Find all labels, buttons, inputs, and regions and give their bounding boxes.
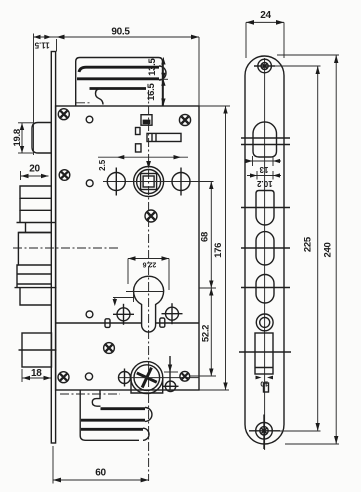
svg-text:13.5: 13.5 — [147, 58, 158, 76]
svg-text:52.2: 52.2 — [201, 325, 212, 342]
spindle follower inner circle — [137, 170, 161, 194]
spring leaf right cap — [159, 66, 166, 80]
cylinder fixing hole right — [162, 303, 183, 324]
small crosshair circle below right of hub — [163, 381, 179, 391]
svg-text:10.2: 10.2 — [256, 179, 272, 188]
dimension 60 arrows — [53, 478, 149, 483]
bottom spring bar 1 — [101, 407, 146, 410]
deadbolt slat 4 indented — [18, 223, 51, 233]
spring leaf bar 1 — [79, 67, 159, 72]
small leader dimension left of cylinder — [113, 293, 134, 306]
dimension 240 arrows — [334, 55, 338, 444]
cutout stadium mid — [256, 232, 274, 265]
dimension 13 arrows — [246, 159, 281, 163]
bottom screw hole — [249, 415, 280, 450]
hub inner circle — [134, 365, 160, 391]
screw top right — [179, 114, 190, 125]
faceplate vertical centerline — [264, 58, 266, 450]
dimension 60 left extension — [52, 446, 54, 484]
dimension 11.5 arrows — [34, 35, 52, 39]
alignment line b — [241, 247, 290, 249]
svg-text:24: 24 — [260, 10, 271, 21]
cutout stadium lower — [256, 275, 274, 304]
cylinder screw hole on plate — [256, 314, 273, 331]
centerline down arrow above spindle — [146, 161, 151, 169]
dimension 22.6 extensions — [127, 259, 129, 285]
case internal line at cylinder level left — [56, 322, 142, 324]
side hole right — [172, 168, 190, 196]
dimension 90.5 left arrow — [57, 35, 65, 40]
deadbolt slat 3 — [17, 210, 52, 222]
dimension 52.2 line — [210, 182, 212, 377]
dimension 18 line — [23, 377, 52, 379]
dimension 16.5 line — [162, 79, 164, 105]
hub left small circle — [119, 369, 131, 387]
deadbolt slat 6 — [17, 284, 52, 288]
svg-text:16.5: 16.5 — [146, 83, 157, 101]
svg-text:240: 240 — [322, 243, 333, 258]
handle screw below spindle — [145, 210, 157, 222]
faceplate outline — [245, 56, 284, 444]
lower cutout inner line — [255, 367, 273, 369]
vertical centerline — [148, 90, 150, 481]
latch cutout — [253, 122, 277, 157]
dimension 2.5 line — [98, 156, 188, 158]
small rect part a — [136, 128, 141, 135]
screw left mid — [59, 170, 70, 181]
dimension 24 line — [246, 21, 284, 23]
small hole circle top — [86, 116, 93, 123]
screw right of hub — [180, 371, 190, 381]
deadbolt cutout upper — [256, 191, 274, 226]
small rounded rect left of cylinder — [105, 319, 110, 328]
cylinder horizontal centerline — [126, 291, 164, 293]
deadbolt slat 1 — [20, 186, 52, 198]
dimension 60 line — [53, 479, 149, 481]
small rect part b — [136, 144, 142, 152]
dimension 240 line — [335, 55, 337, 444]
bottom spring bar 3 — [81, 428, 143, 431]
dimension 22.6 line — [128, 258, 169, 260]
svg-text:225: 225 — [303, 236, 314, 252]
deadbolt slat 2 — [20, 198, 52, 210]
dimension 90.5 right arrow — [191, 35, 199, 40]
spindle square hole outer — [141, 174, 157, 190]
dimension 19.8 extensions — [18, 122, 33, 124]
bottom spring right cap 1 — [145, 408, 152, 422]
auxiliary bolt box — [22, 333, 52, 367]
spindle follower outer circle — [134, 167, 164, 197]
lower rectangular cutout — [255, 333, 273, 374]
svg-text:90.5: 90.5 — [111, 27, 130, 38]
bottom spring left edge — [80, 390, 139, 440]
deadbolt slat 3 line to faceplate — [52, 222, 57, 224]
lock case outline — [56, 106, 199, 390]
svg-text:18: 18 — [31, 368, 42, 379]
hub horizontal centerline — [118, 377, 199, 379]
small rounded rect right of cylinder — [160, 318, 165, 327]
spindle horizontal centerline — [103, 181, 214, 183]
case top edge extension line — [199, 105, 230, 107]
screw top-left — [58, 109, 69, 120]
small hole circle mid — [86, 180, 93, 187]
hub outer circle — [131, 362, 163, 394]
case bottom centerline dashes — [60, 393, 120, 395]
dimension 90.5 line — [34, 36, 200, 38]
small hole circle hub row — [85, 373, 92, 380]
alignment line d — [239, 351, 291, 353]
spring curl dash mark — [76, 102, 91, 104]
case internal line at cylinder level right — [156, 322, 199, 324]
dimension 13.5 line — [162, 58, 164, 80]
alignment line c — [241, 287, 290, 289]
dimension 19.8 line — [21, 123, 23, 153]
dimension 225 arrows — [316, 66, 320, 431]
dimension 10.2 arrows — [250, 173, 280, 177]
deadbolt main block — [18, 233, 51, 266]
bottom spring bar 2 — [81, 419, 145, 422]
spring lower curl — [96, 89, 104, 105]
svg-text:19.8: 19.8 — [12, 129, 23, 146]
svg-text:13: 13 — [259, 165, 268, 174]
vertical line right of hub — [169, 356, 171, 390]
dimension 13 extensions — [252, 156, 254, 166]
dimension 20 extension — [20, 171, 22, 180]
dimension 240 extensions — [277, 54, 339, 56]
svg-text:11.5: 11.5 — [34, 40, 50, 49]
arrow on vertical line — [168, 365, 172, 373]
spring box top — [76, 58, 163, 106]
dimension 18 arrows — [23, 376, 52, 380]
svg-text:60: 60 — [95, 468, 106, 479]
small hole circle lower — [86, 311, 93, 318]
spring leaf bar 2 — [77, 77, 159, 80]
spring leaf bar 3 — [90, 87, 147, 90]
bottom screw left column — [58, 372, 69, 383]
dimension 225 line — [317, 66, 319, 431]
dimension 24 extensions — [245, 22, 247, 58]
dimension 19.8 arrows — [20, 123, 24, 153]
dimension 20 arrows — [21, 174, 49, 178]
bottom spring right cap 2 — [143, 428, 149, 440]
deadbolt slat 5 — [17, 265, 52, 284]
dimension 68/176 arrows — [223, 106, 227, 390]
hub cross dark — [132, 363, 161, 392]
deadbolt bottom line — [15, 287, 57, 289]
dimension 225 extensions — [272, 65, 321, 67]
side hole left — [107, 168, 125, 196]
screw mid left of hub — [104, 343, 115, 354]
auxiliary bolt wide line — [19, 349, 57, 351]
dimension 18 extension — [21, 369, 23, 382]
svg-text:2.5: 2.5 — [98, 159, 107, 171]
small square part above spindle — [141, 115, 152, 126]
svg-text:68: 68 — [199, 232, 210, 242]
slider bar part — [147, 133, 181, 141]
dimension 176 bottom extension — [199, 389, 229, 391]
dimension 22.6 arrows — [128, 256, 169, 260]
dimension 16.5 extension — [160, 78, 169, 80]
narrow slot below cutout — [264, 383, 269, 392]
euro cylinder profile — [134, 276, 164, 332]
dimension 13 line — [245, 160, 281, 162]
svg-text:176: 176 — [213, 243, 224, 258]
dimension 10.2 line — [247, 175, 281, 177]
alignment line a — [241, 207, 290, 209]
bottom spring top curl — [92, 391, 100, 407]
dimension 20 line — [21, 175, 49, 177]
svg-text:20: 20 — [29, 164, 40, 175]
latch bolt — [32, 123, 51, 154]
tiny dimension arrows below cutout — [256, 376, 274, 380]
deadbolt horizontal centerline — [13, 247, 120, 249]
faceplate forend strip — [51, 52, 55, 444]
deadbolt tail box — [20, 288, 52, 305]
latch lines across plate — [241, 137, 290, 139]
top screw hole — [254, 59, 275, 73]
dimension 11.5 left extension — [33, 34, 35, 156]
spindle square hole inner — [143, 176, 154, 187]
svg-text:22.6: 22.6 — [142, 260, 156, 267]
dimension 52.2 arrows — [209, 182, 213, 377]
cylinder fixing hole left — [113, 304, 134, 325]
dimension 2.5 arrows — [117, 155, 181, 159]
dimension 10.2 extensions — [256, 171, 258, 180]
dimension 52.2 extension mid — [199, 287, 216, 289]
dimension 52.2 extension bottom — [190, 375, 216, 377]
dimension 90.5 left extension tick — [56, 39, 58, 52]
dimension 90.5 right extension — [198, 37, 200, 106]
dimension 68 and 176 line — [225, 106, 227, 390]
dimension 24 arrows — [246, 20, 284, 25]
tick at 52.2 lower extension — [164, 371, 178, 373]
hub pocket sides — [131, 378, 163, 393]
